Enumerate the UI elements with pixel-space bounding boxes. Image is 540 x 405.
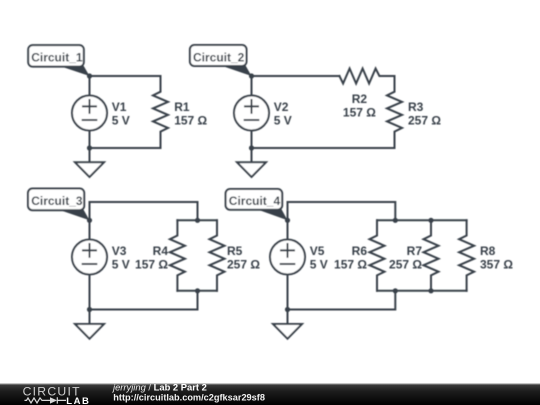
node flag Circuit_1 [28, 45, 89, 76]
resistor R2 [339, 69, 394, 84]
svg-text:257 Ω: 257 Ω [408, 114, 441, 128]
node flag Circuit_4 [226, 189, 288, 220]
label R7 257 ohm [389, 244, 422, 272]
label R6 157 ohm [334, 244, 367, 272]
svg-text:jerryjing / Lab 2 Part 2: jerryjing / Lab 2 Part 2 [111, 382, 207, 393]
node dot Circuit_1 [87, 73, 92, 78]
wire top C3 [90, 202, 198, 220]
resistor R3 [387, 76, 402, 148]
node dot Circuit_2 [249, 73, 254, 78]
svg-text:V3: V3 [112, 244, 127, 258]
junction dot C4 bar feed [393, 288, 398, 293]
label R4 157 ohm [135, 244, 168, 272]
footer url [113, 392, 265, 402]
resistor R4 [170, 220, 185, 290]
ground C2 [237, 148, 266, 177]
svg-text:Circuit_2: Circuit_2 [193, 51, 245, 65]
ground C3 [75, 310, 104, 339]
wire top C4 [288, 202, 396, 220]
svg-text:R3: R3 [408, 100, 424, 114]
node flag Circuit_3 [28, 189, 90, 221]
label R8 357 ohm [480, 244, 513, 272]
svg-text:V5: V5 [310, 244, 325, 258]
wire top C1 [90, 75, 161, 77]
svg-text:R2: R2 [352, 92, 368, 106]
junction dot C2 bottom [249, 145, 254, 150]
wire bottom C1 [90, 147, 161, 149]
junction dot C4 top feed [393, 218, 398, 223]
svg-text:R4: R4 [153, 244, 169, 258]
junction dot C4 bottom [285, 307, 290, 312]
svg-text:Circuit_1: Circuit_1 [31, 51, 83, 65]
svg-text:357 Ω: 357 Ω [480, 258, 513, 272]
resistor R5 [210, 220, 225, 290]
resistor R7 [424, 220, 439, 290]
svg-text:Circuit_3: Circuit_3 [31, 194, 83, 208]
resistor R8 [459, 220, 474, 290]
ground C4 [273, 310, 302, 339]
CircuitLab logo [23, 385, 91, 405]
svg-text:157 Ω: 157 Ω [174, 114, 207, 128]
svg-text:5 V: 5 V [112, 258, 130, 272]
svg-text:R5: R5 [227, 244, 243, 258]
wire bottom C2 [252, 147, 395, 149]
label R3 257 ohm [408, 100, 441, 128]
resistor R1 [153, 76, 168, 148]
svg-text:5 V: 5 V [274, 114, 292, 128]
svg-text:157 Ω: 157 Ω [343, 106, 376, 120]
svg-text:Circuit_4: Circuit_4 [229, 194, 281, 208]
footer title jerryjing / Lab 2 Part 2 [111, 382, 207, 393]
svg-text:5 V: 5 V [112, 114, 130, 128]
svg-text:V2: V2 [274, 100, 289, 114]
node dot Circuit_4 [285, 218, 290, 223]
voltage source V2 [234, 76, 269, 148]
junction dot C3 bar bottom [195, 288, 200, 293]
footer bar [0, 384, 540, 405]
wire top bar C4 [377, 219, 467, 221]
wire bottom bar C4 [377, 290, 467, 292]
label V3 5 V [112, 244, 130, 272]
label R2 157 ohm [343, 92, 376, 120]
svg-text:R1: R1 [174, 100, 190, 114]
junction dot C4 bar R7 [428, 288, 433, 293]
wire bottom C4 [288, 291, 396, 310]
voltage source V1 [72, 76, 107, 148]
resistor R6 [370, 220, 385, 290]
junction dot C1 bottom [87, 145, 92, 150]
junction dot C4 top R7 [428, 218, 433, 223]
label V1 5 V [112, 100, 130, 128]
svg-text:257 Ω: 257 Ω [389, 258, 422, 272]
junction dot C3 top [195, 218, 200, 223]
svg-text:V1: V1 [112, 100, 127, 114]
node flag Circuit_2 [190, 45, 252, 76]
node dot Circuit_3 [87, 218, 92, 223]
ground C1 [75, 148, 104, 177]
voltage source V3 [72, 220, 107, 309]
wire top C2 [252, 75, 340, 77]
svg-text:257 Ω: 257 Ω [227, 258, 260, 272]
label R1 157 ohm [174, 100, 207, 128]
voltage source V5 [270, 220, 305, 309]
svg-text:http://circuitlab.com/c2gfksar: http://circuitlab.com/c2gfksar29sf8 [113, 392, 265, 402]
label V2 5 V [274, 100, 292, 128]
wire top bar C3 [177, 219, 217, 221]
label R5 257 ohm [227, 244, 260, 272]
svg-text:LAB: LAB [66, 396, 90, 405]
svg-text:R7: R7 [407, 244, 423, 258]
svg-text:R8: R8 [480, 244, 496, 258]
svg-text:157 Ω: 157 Ω [334, 258, 367, 272]
label V5 5 V [310, 244, 328, 272]
wire bottom bar C3 [177, 290, 217, 292]
svg-text:R6: R6 [352, 244, 368, 258]
svg-text:157 Ω: 157 Ω [135, 258, 168, 272]
wire bottom C3 [90, 291, 198, 310]
junction dot C3 bottom [87, 307, 92, 312]
svg-text:5 V: 5 V [310, 258, 328, 272]
